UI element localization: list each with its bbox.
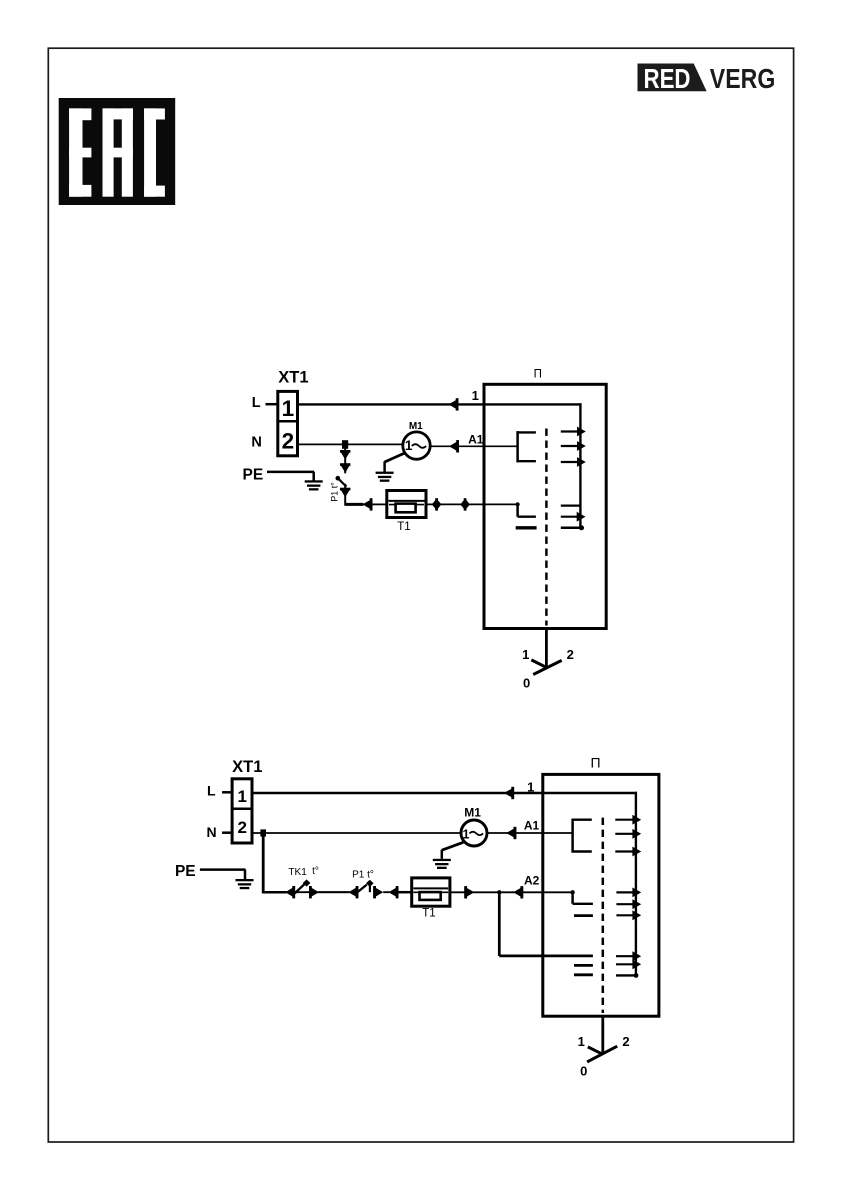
svg-text:A1: A1 — [524, 818, 540, 832]
svg-text:L: L — [207, 782, 216, 798]
svg-text:XT1: XT1 — [278, 369, 308, 387]
svg-text:П: П — [590, 755, 600, 771]
svg-text:1: 1 — [463, 828, 470, 842]
svg-text:VERG: VERG — [710, 63, 776, 94]
svg-text:XT1: XT1 — [232, 758, 262, 776]
svg-text:0: 0 — [523, 676, 530, 691]
svg-text:PE: PE — [175, 863, 196, 880]
svg-text:RED: RED — [644, 63, 691, 94]
svg-text:A1: A1 — [468, 432, 484, 446]
svg-text:1: 1 — [522, 647, 529, 662]
svg-text:2: 2 — [622, 1034, 629, 1049]
svg-text:N: N — [207, 824, 217, 840]
svg-text:N: N — [251, 435, 261, 451]
svg-text:П: П — [534, 369, 542, 381]
svg-text:1: 1 — [527, 780, 534, 795]
svg-text:2: 2 — [567, 647, 574, 662]
svg-text:1: 1 — [578, 1034, 585, 1049]
svg-text:M1: M1 — [409, 421, 423, 432]
svg-text:2: 2 — [282, 428, 295, 453]
svg-text:T1: T1 — [422, 908, 435, 920]
svg-text:A2: A2 — [524, 874, 540, 888]
svg-text:M1: M1 — [464, 806, 481, 820]
svg-text:t°: t° — [312, 866, 319, 877]
svg-text:1: 1 — [237, 787, 246, 806]
svg-text:T1: T1 — [397, 521, 410, 533]
svg-text:1: 1 — [282, 396, 295, 421]
svg-text:PE: PE — [243, 466, 264, 483]
svg-text:P1 t°: P1 t° — [352, 870, 374, 881]
svg-text:1: 1 — [472, 388, 479, 403]
svg-text:L: L — [252, 395, 261, 411]
svg-text:TK1: TK1 — [288, 867, 307, 878]
svg-text:2: 2 — [237, 818, 246, 837]
svg-text:0: 0 — [580, 1064, 587, 1079]
svg-text:1: 1 — [405, 438, 413, 453]
svg-text:P1 t°: P1 t° — [330, 482, 340, 502]
